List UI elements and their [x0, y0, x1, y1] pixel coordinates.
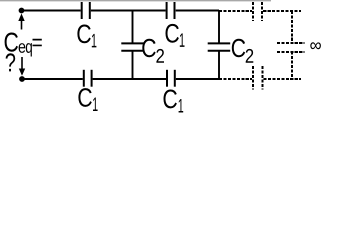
node top terminal [19, 8, 25, 14]
label question mark [6, 53, 16, 71]
label infinity [310, 42, 321, 49]
arrow top terminal [18, 14, 24, 30]
capacitor dashed shunt infinite cell [277, 43, 304, 52]
label C1 bottom-right [164, 90, 184, 113]
capacitor C1 bottom-left [84, 70, 92, 87]
label C1 bottom-left [78, 88, 97, 111]
wire top rail dashed [219, 10, 252, 12]
wire dashed right vertical top [291, 11, 293, 43]
wire bottom rail left [22, 78, 83, 80]
capacitor C1 bottom-right [167, 70, 175, 87]
wire bottom rail middle [93, 78, 166, 80]
wire bottom rail right [176, 78, 219, 80]
label C2 first shunt [142, 39, 164, 63]
label Ceq equals [5, 33, 42, 57]
wire top rail left [22, 10, 81, 12]
wire dashed right vertical bottom [291, 52, 293, 80]
label C1 top-left [77, 25, 96, 48]
capacitor dashed bottom series [253, 66, 262, 90]
wire top rail middle [91, 10, 166, 12]
wire top rail dashed continuation [263, 10, 301, 12]
label C1 top-right [166, 24, 185, 47]
wire top rail right [176, 10, 219, 12]
node bottom terminal [19, 76, 25, 82]
wire bottom rail dashed continuation [264, 78, 302, 80]
capacitor C1 top-right [167, 2, 175, 19]
capacitor C2 second shunt [208, 11, 231, 80]
arrow bottom terminal [19, 57, 25, 76]
capacitor C1 top-left [82, 2, 90, 19]
label C2 second shunt [232, 39, 254, 63]
wire bottom rail dashed [219, 78, 252, 80]
capacitor C2 first shunt [121, 11, 144, 80]
capacitor dashed top series [253, 2, 262, 21]
